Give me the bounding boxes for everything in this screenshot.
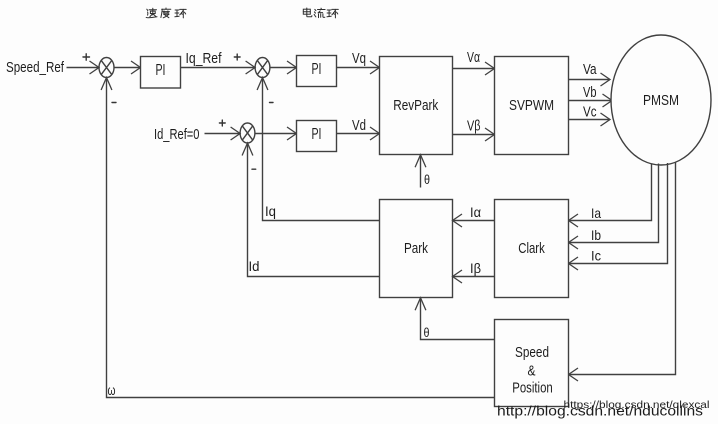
wire PMSM phase a to Clark [569, 164, 652, 221]
wire SVPWM to PMSM (Vb) [569, 100, 613, 102]
summing junction S1 [99, 58, 114, 78]
block Speed & Position [495, 320, 569, 407]
minus sign at S3 [252, 168, 256, 170]
summing junction S3 [240, 123, 255, 143]
svg-text:Iq: Iq [265, 203, 276, 219]
wire Speed&Position theta to Park [421, 298, 495, 340]
wire Clark to Park (Ialpha) [453, 220, 495, 222]
svg-text:Id_Ref=0: Id_Ref=0 [154, 126, 200, 143]
svg-text:Vβ: Vβ [467, 118, 481, 135]
svg-text:Speed: Speed [515, 344, 549, 361]
svg-text:PI: PI [312, 61, 322, 78]
summing junction S2 [255, 58, 270, 78]
wire Speed&Position omega feedback to S1 [107, 78, 495, 398]
wire PMSM shaft sensor to Speed&Position [569, 163, 676, 375]
block RevPark (inverse Park transform) [380, 57, 453, 155]
label 速度环 (speed loop) [146, 8, 186, 18]
wire Park Id feedback to S3 [248, 144, 380, 277]
label 电流环 (current loop) [303, 8, 338, 18]
svg-text:PI: PI [156, 62, 166, 79]
svg-text:PI: PI [312, 126, 322, 143]
svg-text:Vq: Vq [352, 50, 366, 67]
wire Speed_Ref to summing junction S1 [67, 67, 100, 69]
svg-text:http://blog.csdn.net/nducollin: http://blog.csdn.net/nducollins [497, 404, 703, 419]
svg-text:Iβ: Iβ [470, 260, 481, 276]
svg-text:Clark: Clark [518, 240, 545, 257]
svg-text:Vc: Vc [583, 104, 597, 121]
svg-text:&: & [528, 363, 536, 380]
wire SVPWM to PMSM (Vc) [569, 119, 611, 121]
wire SVPWM to PMSM (Va) [569, 79, 611, 81]
wire S3 to PI3 [255, 133, 297, 135]
wire S1 to PI1 [114, 67, 141, 69]
wire PI2 to RevPark (Vq) [337, 67, 380, 69]
block Clark transform [495, 200, 569, 298]
plus sign at S2 [234, 54, 240, 60]
svg-text:Speed_Ref: Speed_Ref [6, 59, 65, 76]
svg-text:Va: Va [583, 61, 597, 78]
wire S2 to PI2 [270, 67, 297, 69]
wire PI3 to RevPark (Vd) [337, 133, 380, 135]
svg-text:Vb: Vb [583, 84, 597, 101]
svg-text:ω: ω [108, 382, 116, 398]
block SVPWM [495, 57, 569, 155]
plus sign at S1 [83, 54, 90, 60]
plus sign at S3 [219, 120, 225, 126]
wire PI1 to summing junction S2 [181, 67, 256, 69]
minus sign at S1 [112, 102, 116, 104]
svg-text:Position: Position [512, 380, 553, 397]
svg-text:RevPark: RevPark [393, 97, 438, 114]
wire Id_Ref to summing junction S3 [205, 133, 241, 135]
block PI1 (speed PI) [141, 57, 181, 89]
motor PMSM [611, 35, 711, 165]
svg-text:Iα: Iα [470, 204, 481, 220]
wire PMSM phase c to Clark [569, 163, 668, 264]
svg-text:Id: Id [249, 258, 260, 274]
svg-text:Iq_Ref: Iq_Ref [186, 50, 223, 67]
block PI3 (d current PI) [297, 121, 337, 152]
svg-text:Vα: Vα [467, 49, 480, 66]
minus sign at S2 [270, 102, 274, 104]
svg-text:SVPWM: SVPWM [509, 97, 554, 114]
svg-text:PMSM: PMSM [643, 92, 679, 109]
theta arrow into RevPark bottom [415, 155, 426, 188]
svg-text:θ: θ [424, 325, 430, 340]
wire Clark to Park (Ibeta) [453, 276, 495, 278]
wire Park Iq feedback to S2 [263, 78, 380, 221]
svg-text:Ib: Ib [591, 227, 601, 243]
wire PMSM phase b to Clark [569, 164, 659, 243]
svg-text:Ia: Ia [591, 205, 601, 221]
wire RevPark to SVPWM (Valpha) [453, 68, 495, 70]
svg-text:Ic: Ic [591, 248, 601, 264]
svg-text:θ: θ [424, 172, 430, 187]
svg-text:Park: Park [404, 240, 428, 257]
block PI2 (q current PI) [297, 56, 337, 87]
svg-text:Vd: Vd [352, 117, 366, 134]
block Park transform [380, 200, 453, 298]
wire RevPark to SVPWM (Vbeta) [453, 134, 495, 136]
